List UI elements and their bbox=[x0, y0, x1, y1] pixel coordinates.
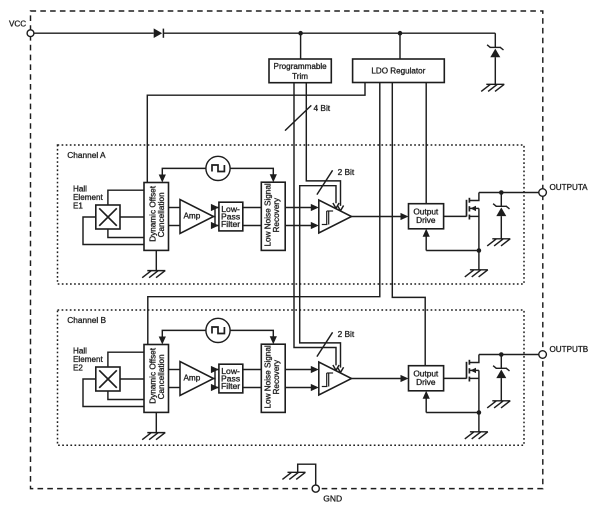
wire chopper to ground bbox=[155, 250, 157, 270]
wire LDO to VCC rail bbox=[399, 33, 401, 59]
svg-text:Amp: Amp bbox=[183, 212, 200, 221]
oscillator (square-wave source) bbox=[206, 156, 230, 180]
block Low Noise Signal Recovery bbox=[261, 182, 285, 250]
svg-text:Drive: Drive bbox=[416, 215, 436, 225]
wire recovery to comparator (upper) bbox=[285, 369, 313, 371]
svg-text:Low Noise Signal: Low Noise Signal bbox=[263, 345, 272, 408]
svg-text:Amp: Amp bbox=[183, 374, 200, 383]
op-amp Amp (channel B) bbox=[180, 362, 214, 396]
svg-text:Drive: Drive bbox=[416, 377, 436, 387]
wire hall plate right contact to chopper bbox=[120, 216, 144, 218]
Hall element E1 (plate symbol) bbox=[96, 205, 120, 229]
wire hall plate top contact to chopper bbox=[108, 190, 144, 205]
node GND terminal bbox=[312, 485, 319, 492]
wire recovery to comparator (lower) bbox=[285, 387, 313, 389]
zener diode (output clamp A) bbox=[493, 204, 509, 209]
svg-text:Recovery: Recovery bbox=[272, 359, 281, 394]
wire trim bus line 1 (to channel B comparator) bbox=[294, 83, 336, 366]
wire inter-channel bus line (channel A to channel B comparator) bbox=[300, 186, 341, 368]
wire oscillator to chopper clock bbox=[162, 330, 206, 337]
svg-text:Filter: Filter bbox=[221, 219, 240, 229]
svg-text:Programmable: Programmable bbox=[274, 62, 328, 71]
bus slash 2 Bit (channel B) bbox=[317, 332, 333, 356]
Channel B dashed boundary bbox=[58, 310, 525, 445]
ground (VCC clamp) bbox=[481, 84, 504, 91]
svg-text:Channel B: Channel B bbox=[67, 315, 106, 325]
ground (chopper) bbox=[142, 433, 165, 440]
ground (internal GND tie) bbox=[282, 472, 305, 479]
svg-text:E2: E2 bbox=[73, 363, 83, 372]
comparator with hysteresis (channel B) bbox=[319, 362, 352, 395]
transistor output MOSFET (channel B) bbox=[467, 360, 470, 382]
wire source node to output drive feedback bbox=[426, 250, 479, 252]
zener diode (VCC clamp) bbox=[487, 45, 503, 50]
wire filter to recovery (upper) bbox=[243, 207, 261, 209]
wire LDO rail to channel B chopper bbox=[148, 83, 380, 345]
wire LDO rail to channel A chopper bbox=[147, 83, 365, 183]
block Dynamic Offset Cancellation bbox=[144, 183, 169, 251]
svg-text:E1: E1 bbox=[73, 201, 83, 210]
wire source to ground bbox=[478, 251, 480, 270]
svg-text:Channel A: Channel A bbox=[67, 150, 106, 160]
wire LDO rail to channel B output drive bbox=[392, 83, 425, 366]
wire GND terminal to internal ground bbox=[298, 464, 316, 485]
wire output-stage feedback into output drive bbox=[425, 234, 427, 251]
block Output Drive bbox=[409, 204, 444, 229]
comparator with hysteresis (channel A) bbox=[319, 200, 352, 233]
op-amp Amp (channel A) bbox=[180, 200, 214, 234]
wire chopper to ground bbox=[155, 412, 157, 432]
wire hall plate bottom contact to chopper bbox=[108, 229, 144, 238]
transistor output MOSFET (channel A) bbox=[467, 198, 470, 220]
junction: VCC rail to Programmable Trim bbox=[298, 31, 303, 36]
svg-text:VCC: VCC bbox=[9, 20, 26, 29]
zener diode (output clamp B) bbox=[493, 366, 509, 371]
svg-text:Trim: Trim bbox=[292, 72, 308, 81]
ground (output clamp B) bbox=[487, 401, 510, 408]
wire filter to recovery (lower) bbox=[243, 225, 261, 227]
wire comparator to output drive bbox=[352, 378, 404, 380]
wire hall plate left contact to chopper bbox=[83, 217, 144, 245]
wire drain to OUTPUTA bbox=[479, 192, 539, 194]
junction: source node bbox=[477, 248, 482, 253]
wire hall plate right contact to chopper bbox=[120, 378, 144, 380]
node OUTPUTA terminal bbox=[539, 189, 547, 197]
svg-text:LDO Regulator: LDO Regulator bbox=[371, 67, 425, 76]
svg-text:Cancellation: Cancellation bbox=[157, 192, 166, 238]
svg-text:2 Bit: 2 Bit bbox=[338, 167, 355, 177]
wire drain node to zener bbox=[500, 355, 502, 369]
wire oscillator to chopper clock bbox=[162, 168, 206, 175]
block Low Noise Signal Recovery bbox=[261, 344, 285, 412]
ground (MOSFET source A) bbox=[465, 270, 488, 277]
wire hall plate top contact to chopper bbox=[108, 352, 144, 367]
wire trim bus line 2 (to channel A comparator) bbox=[306, 83, 340, 206]
wire output drive to MOSFET gate bbox=[444, 215, 467, 217]
ground (chopper) bbox=[142, 271, 165, 278]
bus slash 4 Bit bbox=[285, 105, 311, 130]
node OUTPUTB terminal bbox=[539, 351, 547, 359]
svg-text:Recovery: Recovery bbox=[272, 197, 281, 232]
svg-text:Cancellation: Cancellation bbox=[157, 354, 166, 400]
wire source node to output drive feedback bbox=[426, 412, 479, 414]
wire oscillator to recovery clock bbox=[230, 168, 273, 175]
svg-text:GND: GND bbox=[323, 493, 342, 503]
wire recovery to comparator (upper) bbox=[285, 207, 313, 209]
wire comparator to output drive bbox=[352, 216, 404, 218]
block Low-Pass Filter bbox=[219, 364, 243, 393]
block Dynamic Offset Cancellation bbox=[144, 345, 169, 413]
svg-text:OUTPUTB: OUTPUTB bbox=[550, 345, 589, 354]
wire hall plate bottom contact to chopper bbox=[108, 391, 144, 400]
wire chopper to amp (lower) bbox=[169, 387, 181, 389]
wire amp output to low-pass filter bbox=[214, 208, 219, 217]
wire Trim to VCC rail bbox=[300, 33, 302, 59]
Channel A dashed boundary bbox=[58, 145, 525, 284]
wire chopper to amp (lower) bbox=[169, 225, 181, 227]
ground (MOSFET source B) bbox=[465, 432, 488, 439]
oscillator (square-wave source) bbox=[206, 318, 230, 342]
wire zener to ground bbox=[500, 216, 502, 239]
wire output drive to MOSFET gate bbox=[444, 377, 467, 379]
wire zener to ground bbox=[500, 378, 502, 401]
ground (output clamp A) bbox=[487, 239, 510, 246]
block Output Drive bbox=[409, 366, 444, 391]
wire chopper to amp (upper) bbox=[169, 369, 181, 371]
diode D1 (reverse-battery protection) bbox=[154, 28, 163, 38]
wire amp output to low-pass filter bbox=[214, 370, 219, 379]
junction: drain node to clamp zener bbox=[499, 190, 504, 195]
wire chopper to amp (upper) bbox=[169, 207, 181, 209]
wire hall plate left contact to chopper bbox=[83, 379, 144, 407]
wire output-stage feedback into output drive bbox=[425, 396, 427, 413]
wire LDO rail to channel A output drive bbox=[425, 83, 427, 204]
wire drain to OUTPUTB bbox=[479, 354, 539, 356]
wire drain node to zener bbox=[500, 193, 502, 207]
block Programmable Trim bbox=[269, 59, 331, 83]
wire recovery to comparator (lower) bbox=[285, 225, 313, 227]
svg-text:Filter: Filter bbox=[221, 381, 240, 391]
junction: drain node to clamp zener bbox=[499, 352, 504, 357]
wire VCC rail (top) bbox=[34, 33, 495, 47]
junction: source node bbox=[477, 410, 482, 415]
wire source to ground bbox=[478, 413, 480, 432]
wire filter to recovery (lower) bbox=[243, 387, 261, 389]
bus slash 2 Bit (channel A) bbox=[317, 170, 333, 194]
junction: VCC rail to LDO Regulator bbox=[398, 31, 403, 36]
Hall element E2 (plate symbol) bbox=[96, 367, 120, 391]
block Low-Pass Filter bbox=[219, 202, 243, 231]
node VCC terminal bbox=[27, 30, 34, 37]
block LDO Regulator bbox=[353, 59, 445, 83]
svg-text:2 Bit: 2 Bit bbox=[338, 329, 355, 339]
wire filter to recovery (upper) bbox=[243, 369, 261, 371]
wire oscillator to recovery clock bbox=[230, 330, 273, 337]
svg-text:Low Noise Signal: Low Noise Signal bbox=[263, 183, 272, 246]
svg-text:OUTPUTA: OUTPUTA bbox=[550, 183, 589, 192]
wire zener to ground bbox=[494, 57, 496, 84]
svg-text:4 Bit: 4 Bit bbox=[314, 103, 331, 113]
